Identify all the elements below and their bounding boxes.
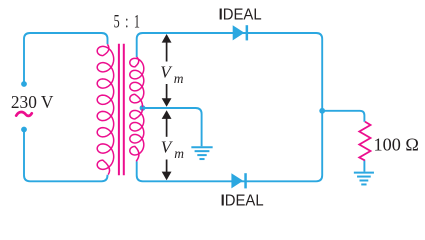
diode D1 (top, IDEAL) xyxy=(233,25,248,40)
node: source terminal top xyxy=(21,81,27,87)
node: output junction xyxy=(319,108,325,114)
wire: resistor bottom stub xyxy=(363,160,365,171)
transformer T1 secondary upper winding xyxy=(130,57,144,107)
resistor R1 100 ohm xyxy=(359,122,370,161)
wire: center tap to ground xyxy=(143,108,202,146)
svg-text:IDEAL: IDEAL xyxy=(221,192,264,209)
ground: center tap ground xyxy=(191,147,212,159)
wire: secondary top rail, right vertical, bottom rail xyxy=(137,33,323,181)
svg-text:IDEAL: IDEAL xyxy=(219,7,262,24)
wire: left-top from source + terminal to primary top xyxy=(24,33,108,84)
ground: load resistor ground xyxy=(354,173,374,185)
wire: left-bottom from source - terminal to primary bottom xyxy=(24,130,108,182)
diode D2 (bottom, IDEAL) xyxy=(231,173,246,188)
transformer core xyxy=(118,44,120,176)
node: source terminal bottom xyxy=(21,127,27,133)
label: lower Vm xyxy=(161,137,185,161)
transformer T1 primary winding xyxy=(97,44,113,174)
symbol: AC tilde xyxy=(16,112,32,116)
node: center tap xyxy=(140,105,146,111)
wire: junction to resistor xyxy=(322,111,364,122)
svg-text:100 Ω: 100 Ω xyxy=(374,135,419,155)
transformer T1 secondary lower winding xyxy=(130,109,144,161)
svg-text:230 V: 230 V xyxy=(11,92,54,112)
arrow: lower Vm measure xyxy=(162,110,172,180)
arrow: upper Vm measure xyxy=(162,34,172,107)
svg-text:m: m xyxy=(174,71,184,86)
label: upper Vm xyxy=(160,62,184,86)
svg-text:m: m xyxy=(174,146,184,161)
svg-text:5 : 1: 5 : 1 xyxy=(114,13,140,33)
